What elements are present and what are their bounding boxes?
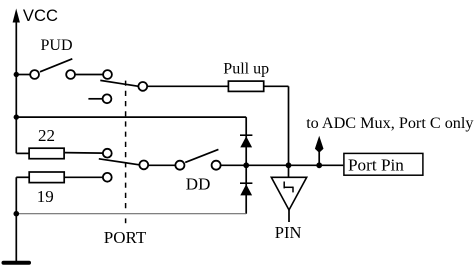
svg-text:VCC: VCC bbox=[23, 6, 58, 25]
svg-text:PUD: PUD bbox=[41, 37, 73, 54]
svg-text:to ADC Mux, Port C only: to ADC Mux, Port C only bbox=[306, 114, 474, 132]
svg-text:Port Pin: Port Pin bbox=[348, 156, 404, 175]
svg-text:Pull up: Pull up bbox=[223, 60, 269, 77]
svg-text:PORT: PORT bbox=[104, 228, 147, 247]
svg-text:DD: DD bbox=[186, 175, 211, 194]
svg-text:22: 22 bbox=[38, 126, 55, 145]
svg-text:PIN: PIN bbox=[275, 223, 302, 242]
svg-text:19: 19 bbox=[37, 187, 54, 206]
